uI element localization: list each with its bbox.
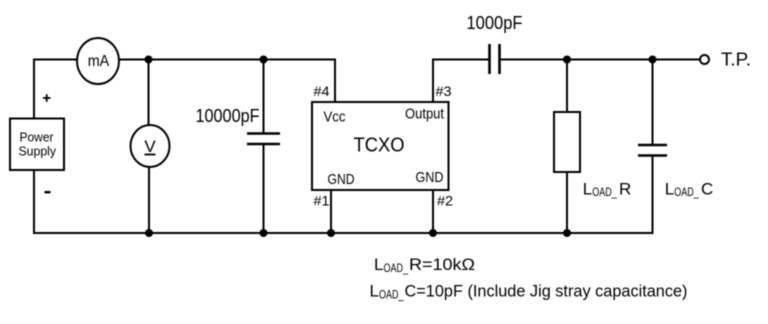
bottom bus wire [33, 232, 654, 234]
node junction top at LOAD_R branch [563, 56, 571, 64]
svg-text:10000pF: 10000pF [196, 106, 260, 126]
svg-text:L: L [374, 255, 383, 274]
svg-text:Supply: Supply [19, 144, 57, 159]
svg-text:Vcc: Vcc [324, 109, 346, 126]
svg-text:TCXO: TCXO [354, 134, 405, 157]
node junction top at 10000pF branch [260, 56, 268, 64]
wire voltmeter upper lead [148, 60, 150, 127]
svg-text:Output: Output [405, 106, 445, 123]
svg-text:1000pF: 1000pF [467, 13, 523, 33]
voltmeter V [131, 125, 170, 167]
svg-text:#2: #2 [437, 193, 453, 209]
wire from pin 3 to 1000pF [432, 59, 489, 61]
svg-text:L: L [370, 282, 379, 301]
capacitor LOAD_C [638, 60, 667, 235]
wire TCXO pin 2 lead [432, 189, 434, 233]
svg-text:OAD_: OAD_ [384, 261, 409, 275]
node junction top at voltmeter branch [145, 56, 153, 64]
note line 1: LOAD_R=10kOhm [374, 255, 475, 275]
wire top horizontal from ammeter to TCXO pin 4 corner [119, 59, 336, 61]
label LOAD_R [583, 180, 631, 200]
node junction bottom at 10000pF branch [260, 229, 268, 237]
svg-text:#3: #3 [436, 83, 452, 99]
node junction top at LOAD_C branch [649, 56, 657, 64]
svg-text:mA: mA [88, 53, 110, 70]
resistor LOAD_R [554, 60, 580, 234]
power supply PS1 [10, 119, 64, 171]
wire top-left horizontal from + corner to ammeter [33, 59, 78, 61]
wire left vertical from Power Supply - terminal to bottom bus [33, 169, 35, 234]
capacitor C2 1000pF [490, 44, 500, 74]
svg-text:C=10pF (Include Jig stray capa: C=10pF (Include Jig stray capacitance) [405, 282, 688, 301]
svg-text:R=10kΩ: R=10kΩ [409, 255, 475, 274]
note line 2: LOAD_C=10pF (Include Jig stray capacitance) [370, 282, 688, 302]
wire TCXO pin 1 lead [330, 189, 332, 233]
svg-text:T.P.: T.P. [721, 49, 751, 69]
svg-text:C: C [701, 180, 713, 199]
svg-text:GND: GND [328, 171, 355, 188]
svg-text:GND: GND [416, 169, 444, 186]
svg-text:#1: #1 [314, 193, 330, 209]
svg-text:R: R [619, 180, 631, 199]
label LOAD_C [665, 180, 713, 200]
wire voltmeter lower lead [148, 167, 150, 233]
node junction bottom at LOAD_R branch [563, 229, 571, 237]
TCXO U1 [312, 102, 449, 190]
node junction bottom at voltmeter branch [145, 229, 153, 237]
svg-text:Power: Power [20, 130, 55, 145]
svg-text:#4: #4 [314, 83, 330, 99]
wire TCXO pin 4 lead [334, 59, 336, 104]
svg-text:OAD_: OAD_ [592, 185, 617, 199]
svg-text:L: L [665, 180, 674, 199]
polarity label + [43, 94, 51, 102]
polarity label - [45, 191, 51, 193]
node junction bottom at pin 1 [327, 229, 335, 237]
svg-text:OAD_: OAD_ [379, 287, 404, 301]
wire from 1000pF to test point [500, 59, 700, 61]
svg-text:V: V [144, 137, 156, 156]
svg-text:OAD_: OAD_ [674, 185, 699, 199]
wire TCXO pin 3 lead [432, 59, 434, 104]
svg-text:L: L [583, 180, 592, 199]
test point terminal T.P. [700, 55, 709, 64]
wire left vertical from top corner to Power Supply + terminal [33, 59, 35, 120]
ammeter mA [77, 38, 119, 84]
node junction bottom at pin 2 [429, 229, 437, 237]
capacitor C1 10000pF [247, 60, 280, 234]
